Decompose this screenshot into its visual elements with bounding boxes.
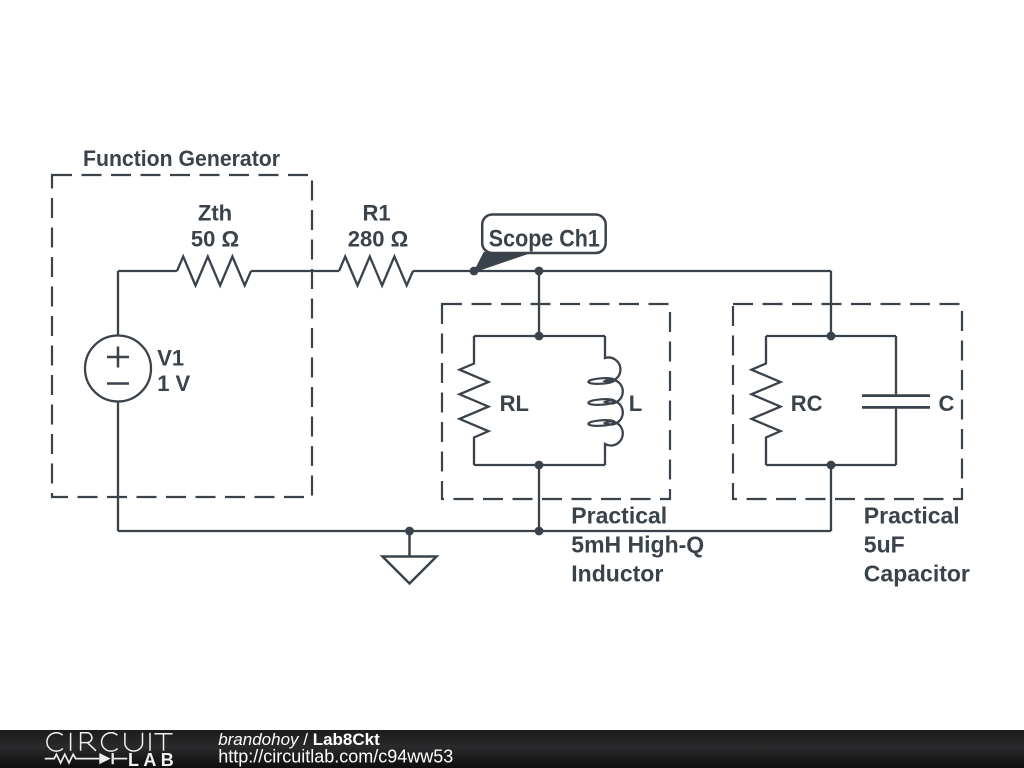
svg-text:Zth: Zth [198, 200, 232, 225]
svg-text:1 V: 1 V [157, 371, 190, 396]
wire between Zth and R1 [251, 270, 339, 272]
capacitor inner rails [766, 336, 896, 465]
T [154, 734, 172, 751]
svg-text:RC: RC [791, 391, 823, 416]
inductor L loop 2 [588, 398, 615, 405]
junction node dots [405, 267, 835, 536]
footer banner [0, 730, 1024, 768]
svg-text:5uF: 5uF [864, 531, 905, 557]
U [125, 733, 143, 751]
node inductor top rail [535, 332, 544, 341]
node capacitor bottom rail [827, 461, 836, 470]
inductor L loop 3 [588, 419, 615, 426]
wire scope node vertical [538, 271, 540, 336]
svg-text:http://circuitlab.com/c94ww53: http://circuitlab.com/c94ww53 [218, 747, 453, 767]
svg-text:LAB: LAB [128, 750, 178, 768]
C [102, 733, 118, 751]
resistor R1 [339, 257, 413, 286]
wire capacitor bottom drop [830, 465, 832, 531]
node top rail / inductor branch [535, 267, 544, 276]
wire top rail right segment [413, 270, 831, 272]
C [47, 733, 63, 751]
dashed box: Function Generator enclosure [52, 175, 312, 497]
wire capacitor top drop [830, 271, 832, 336]
voltage source V1 [85, 336, 151, 402]
wire top rail left segment [118, 270, 177, 272]
scope callout box [482, 215, 606, 254]
resistor Zth [177, 257, 251, 286]
svg-text:Function Generator: Function Generator [83, 146, 280, 171]
ground [383, 531, 437, 584]
wire V1 to bottom rail [117, 402, 119, 532]
svg-text:Practical: Practical [571, 502, 667, 528]
svg-text:Practical: Practical [864, 502, 960, 528]
scope callout wedge [474, 253, 531, 273]
node inductor bottom rail [535, 461, 544, 470]
node capacitor top rail [827, 332, 836, 341]
wire bottom rail [118, 530, 831, 532]
svg-text:5mH High-Q: 5mH High-Q [571, 531, 704, 557]
logo CIRCUIT (drawn letterforms) [47, 733, 173, 751]
svg-text:Inductor: Inductor [571, 560, 663, 586]
inductor L [605, 336, 623, 465]
logo diode triangle [99, 753, 110, 764]
svg-text:R1: R1 [362, 200, 390, 225]
node bottom rail / inductor branch [535, 527, 544, 536]
svg-text:50 Ω: 50 Ω [191, 226, 239, 251]
svg-text:V1: V1 [157, 346, 184, 371]
svg-text:C: C [939, 391, 955, 416]
capacitor C [895, 336, 897, 465]
resistor RL [460, 336, 489, 465]
svg-text:Capacitor: Capacitor [864, 560, 970, 586]
logo resistor-diode symbol [45, 753, 128, 764]
svg-text:RL: RL [500, 391, 529, 416]
R [81, 733, 96, 751]
dashed box: Practical Inductor enclosure [442, 304, 670, 499]
I [70, 733, 72, 751]
resistor RC [752, 336, 781, 465]
inductor L loop 1 [588, 377, 615, 384]
svg-text:L: L [629, 391, 642, 416]
I [149, 733, 151, 751]
wire left vertical to V1 [117, 271, 119, 336]
svg-text:280 Ω: 280 Ω [348, 226, 408, 251]
node ground tap [405, 527, 414, 536]
dashed box: Practical Capacitor enclosure [733, 304, 962, 499]
svg-text:Scope Ch1: Scope Ch1 [489, 225, 600, 252]
inductor inner rails [474, 336, 605, 465]
node scope tap [470, 267, 479, 276]
wire inductor bottom vertical [538, 465, 540, 531]
